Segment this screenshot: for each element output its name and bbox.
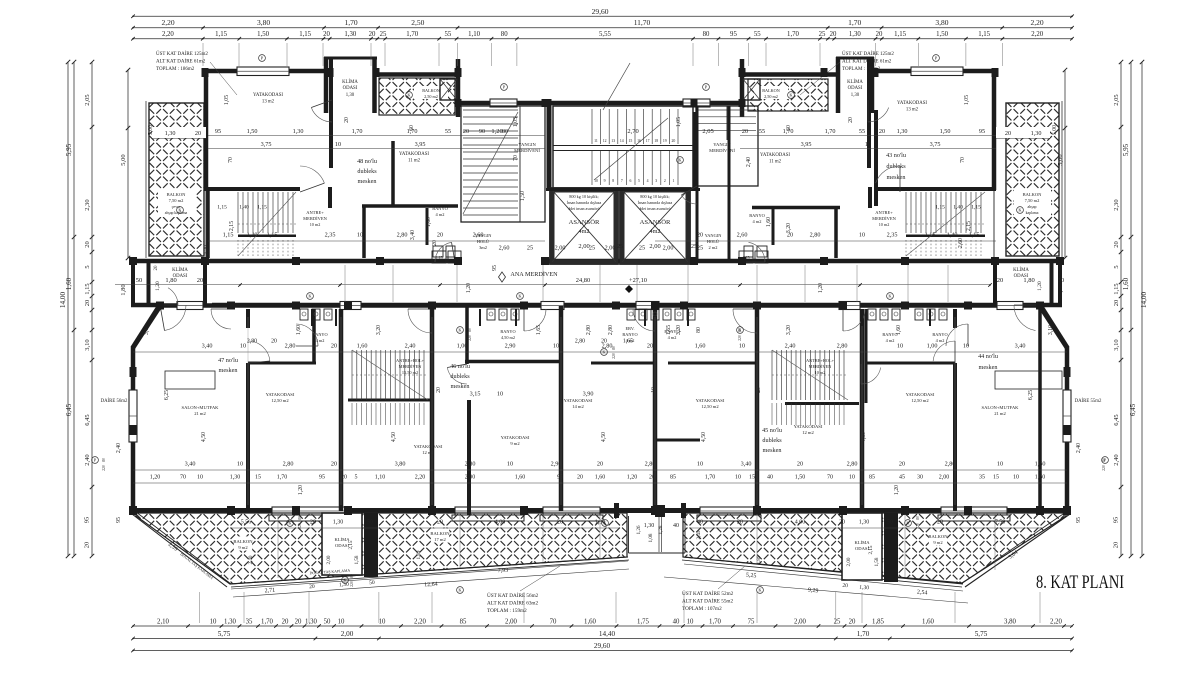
svg-text:BANYO: BANYO xyxy=(312,332,327,337)
svg-text:BALKON: BALKON xyxy=(422,88,439,93)
svg-text:1,28: 1,28 xyxy=(658,525,664,534)
svg-text:1,15: 1,15 xyxy=(299,31,311,38)
svg-text:ALT KAT DAİRE 61m2: ALT KAT DAİRE 61m2 xyxy=(842,59,892,65)
svg-text:20: 20 xyxy=(649,475,655,481)
svg-text:55: 55 xyxy=(859,128,865,135)
svg-text:1,00: 1,00 xyxy=(457,343,468,350)
svg-text:1,65: 1,65 xyxy=(666,325,672,335)
svg-text:SALON+MUTFAK: SALON+MUTFAK xyxy=(182,405,220,410)
svg-text:95: 95 xyxy=(492,265,498,271)
svg-text:2,90: 2,90 xyxy=(551,461,562,468)
svg-text:2,90: 2,90 xyxy=(505,343,516,350)
svg-text:2,00: 2,00 xyxy=(794,619,806,626)
svg-text:20: 20 xyxy=(341,475,347,481)
svg-text:1,70: 1,70 xyxy=(277,475,288,481)
svg-text:48 no'lu: 48 no'lu xyxy=(357,158,377,165)
svg-text:10: 10 xyxy=(210,619,217,626)
svg-text:İnsan hanında dışhıza: İnsan hanında dışhıza xyxy=(567,200,602,205)
svg-text:220: 220 xyxy=(102,465,106,471)
svg-text:BANYO: BANYO xyxy=(749,213,765,218)
svg-text:2,80: 2,80 xyxy=(285,343,296,350)
svg-text:10: 10 xyxy=(735,475,741,481)
svg-text:2,35: 2,35 xyxy=(887,232,898,239)
svg-text:80: 80 xyxy=(696,327,702,333)
svg-text:2,00: 2,00 xyxy=(341,630,354,638)
svg-text:âdet insan asansörü: âdet insan asansörü xyxy=(639,206,670,211)
svg-text:ANTRE+: ANTRE+ xyxy=(306,210,324,215)
svg-text:35: 35 xyxy=(246,619,253,626)
svg-text:5,00: 5,00 xyxy=(148,125,154,135)
svg-text:7,93: 7,93 xyxy=(498,568,509,575)
svg-text:6,45: 6,45 xyxy=(1129,403,1137,416)
svg-text:4m2: 4m2 xyxy=(649,228,660,235)
svg-text:4: 4 xyxy=(647,179,649,183)
svg-text:45: 45 xyxy=(899,475,905,481)
svg-text:3,80: 3,80 xyxy=(257,18,270,27)
svg-text:1,30: 1,30 xyxy=(849,31,861,38)
svg-text:1,60: 1,60 xyxy=(695,343,706,350)
svg-text:1,40: 1,40 xyxy=(953,205,963,211)
svg-text:20: 20 xyxy=(557,520,563,526)
svg-text:1,50: 1,50 xyxy=(936,31,948,38)
svg-text:2,20: 2,20 xyxy=(415,475,426,481)
svg-text:40: 40 xyxy=(697,520,703,526)
svg-text:1,20: 1,20 xyxy=(298,485,304,495)
svg-text:YANGIN: YANGIN xyxy=(518,142,536,147)
svg-text:7,50: 7,50 xyxy=(995,520,1006,526)
svg-text:2,20: 2,20 xyxy=(162,31,174,38)
svg-text:5: 5 xyxy=(1113,265,1120,268)
svg-text:10: 10 xyxy=(594,179,598,183)
svg-text:1,60: 1,60 xyxy=(922,619,934,626)
svg-text:1,08: 1,08 xyxy=(648,533,654,542)
svg-text:1,30: 1,30 xyxy=(333,520,344,526)
svg-text:3,40: 3,40 xyxy=(185,461,196,468)
svg-text:1,50: 1,50 xyxy=(247,128,258,135)
svg-text:2,15: 2,15 xyxy=(348,540,354,549)
svg-text:1,00: 1,00 xyxy=(927,343,938,350)
svg-text:1,65: 1,65 xyxy=(536,325,542,335)
svg-text:10: 10 xyxy=(335,141,341,148)
svg-text:1,15: 1,15 xyxy=(894,31,906,38)
svg-text:40: 40 xyxy=(767,475,773,481)
svg-text:1,70: 1,70 xyxy=(709,619,721,626)
svg-text:2,80: 2,80 xyxy=(586,325,592,335)
svg-text:1,20: 1,20 xyxy=(150,475,161,481)
svg-text:MERDİVENİ: MERDİVENİ xyxy=(709,148,735,153)
svg-text:20: 20 xyxy=(848,117,854,123)
svg-text:220: 220 xyxy=(738,335,742,341)
svg-text:14,00: 14,00 xyxy=(59,292,67,309)
svg-text:220: 220 xyxy=(468,335,472,341)
svg-text:95: 95 xyxy=(730,31,737,38)
svg-text:5,55: 5,55 xyxy=(599,31,611,38)
svg-text:20: 20 xyxy=(997,277,1004,284)
svg-text:11: 11 xyxy=(594,139,598,143)
svg-text:10: 10 xyxy=(237,461,243,468)
svg-text:6,25: 6,25 xyxy=(164,390,170,400)
svg-text:1,60: 1,60 xyxy=(896,325,902,335)
svg-text:4,50: 4,50 xyxy=(391,432,397,442)
svg-text:1,15: 1,15 xyxy=(223,232,234,239)
svg-text:20: 20 xyxy=(282,619,289,626)
svg-text:2,40: 2,40 xyxy=(116,443,122,453)
svg-text:20: 20 xyxy=(309,584,315,590)
svg-text:2,40: 2,40 xyxy=(405,343,416,350)
svg-text:10: 10 xyxy=(697,461,703,468)
svg-text:1,70: 1,70 xyxy=(787,31,799,38)
svg-text:1,60: 1,60 xyxy=(65,277,73,290)
svg-text:BANYO: BANYO xyxy=(622,332,637,337)
svg-text:ÜST KAT DAİRE 52m2: ÜST KAT DAİRE 52m2 xyxy=(682,590,734,597)
svg-text:mesken: mesken xyxy=(887,174,906,181)
svg-text:2,00: 2,00 xyxy=(939,475,950,481)
svg-text:12 m2: 12 m2 xyxy=(422,450,434,455)
svg-text:20: 20 xyxy=(436,387,442,393)
svg-text:70: 70 xyxy=(550,619,557,626)
svg-text:ANTRE+HOL+: ANTRE+HOL+ xyxy=(806,358,835,363)
svg-text:80: 80 xyxy=(1102,458,1106,462)
svg-text:3,10: 3,10 xyxy=(1048,325,1054,335)
svg-text:9 m2: 9 m2 xyxy=(510,441,520,446)
svg-text:20: 20 xyxy=(195,130,201,137)
svg-text:85: 85 xyxy=(670,475,676,481)
svg-text:2,00: 2,00 xyxy=(465,475,476,481)
svg-text:2,80: 2,80 xyxy=(608,325,614,335)
svg-text:3,80: 3,80 xyxy=(935,18,948,27)
svg-text:1,30: 1,30 xyxy=(165,130,176,137)
svg-text:13 m2: 13 m2 xyxy=(906,108,919,113)
svg-text:12 m2: 12 m2 xyxy=(802,430,814,435)
svg-text:20: 20 xyxy=(331,461,337,468)
svg-text:55: 55 xyxy=(445,128,451,135)
svg-text:1,58: 1,58 xyxy=(874,557,880,566)
svg-text:80: 80 xyxy=(501,31,508,38)
svg-text:5,75: 5,75 xyxy=(975,630,988,638)
svg-text:YATAKODASI: YATAKODASI xyxy=(414,444,443,449)
svg-text:mesken: mesken xyxy=(358,178,377,185)
svg-text:4,50: 4,50 xyxy=(201,432,207,442)
svg-text:20: 20 xyxy=(331,343,337,350)
svg-text:5: 5 xyxy=(355,475,358,481)
svg-text:3,20: 3,20 xyxy=(786,223,792,233)
svg-text:ALT KAT DAİRE 63m2: ALT KAT DAİRE 63m2 xyxy=(487,600,538,607)
svg-text:9 m2: 9 m2 xyxy=(238,545,248,550)
svg-text:80: 80 xyxy=(738,328,742,332)
svg-text:70: 70 xyxy=(228,157,234,163)
svg-text:1,30: 1,30 xyxy=(293,128,304,135)
svg-text:40: 40 xyxy=(673,523,679,529)
svg-text:10: 10 xyxy=(859,232,865,239)
svg-text:60: 60 xyxy=(409,125,415,131)
svg-text:20: 20 xyxy=(1113,241,1120,248)
svg-text:95: 95 xyxy=(215,128,221,135)
svg-text:DAİRE 56m2: DAİRE 56m2 xyxy=(101,398,128,404)
svg-text:2,00: 2,00 xyxy=(846,557,852,566)
svg-text:2,05: 2,05 xyxy=(1113,94,1120,105)
svg-text:8: 8 xyxy=(612,179,614,183)
svg-text:KLİMA: KLİMA xyxy=(854,540,870,545)
svg-text:ANTRE+: ANTRE+ xyxy=(875,210,893,215)
svg-text:1,20: 1,20 xyxy=(155,281,161,291)
svg-text:5,56: 5,56 xyxy=(241,520,252,526)
svg-text:10 m2: 10 m2 xyxy=(815,370,826,375)
svg-text:2,05: 2,05 xyxy=(84,94,91,105)
svg-text:2,60: 2,60 xyxy=(499,245,510,252)
svg-text:10: 10 xyxy=(651,387,657,393)
svg-text:10: 10 xyxy=(865,141,871,148)
svg-text:1,30: 1,30 xyxy=(224,619,236,626)
svg-text:YATAKODASI: YATAKODASI xyxy=(501,435,530,440)
svg-text:20: 20 xyxy=(323,31,330,38)
svg-text:1,70: 1,70 xyxy=(352,128,363,135)
svg-text:25: 25 xyxy=(639,245,645,252)
svg-text:90: 90 xyxy=(479,128,485,135)
svg-text:1,15: 1,15 xyxy=(935,205,945,211)
svg-text:95: 95 xyxy=(84,517,91,524)
svg-text:BALKON: BALKON xyxy=(1023,192,1042,197)
svg-text:4 m2: 4 m2 xyxy=(316,338,325,343)
svg-text:1,10: 1,10 xyxy=(468,31,480,38)
svg-text:95: 95 xyxy=(979,128,985,135)
svg-text:YATAKODASI: YATAKODASI xyxy=(253,93,283,98)
svg-text:2,40: 2,40 xyxy=(1076,443,1082,453)
svg-text:1,10: 1,10 xyxy=(375,475,386,481)
svg-text:1,80: 1,80 xyxy=(120,284,127,295)
svg-text:20: 20 xyxy=(84,542,91,549)
svg-text:2,00: 2,00 xyxy=(649,243,660,250)
svg-text:YATAKODASI: YATAKODASI xyxy=(906,392,935,397)
svg-text:5: 5 xyxy=(84,265,91,268)
svg-text:dubleks: dubleks xyxy=(762,437,782,444)
svg-text:1,70: 1,70 xyxy=(825,128,836,135)
svg-text:1,05: 1,05 xyxy=(513,117,519,127)
svg-text:20: 20 xyxy=(876,31,883,38)
svg-text:mesken: mesken xyxy=(219,367,238,374)
svg-text:1,70: 1,70 xyxy=(848,18,861,27)
svg-text:1,05: 1,05 xyxy=(224,95,230,105)
svg-text:1,60: 1,60 xyxy=(1035,475,1046,481)
svg-text:KLİMA: KLİMA xyxy=(1013,267,1029,273)
svg-text:16: 16 xyxy=(637,139,641,143)
svg-text:1,60: 1,60 xyxy=(296,325,302,335)
svg-text:2,40: 2,40 xyxy=(248,555,254,564)
svg-text:10: 10 xyxy=(379,619,386,626)
svg-text:5,25: 5,25 xyxy=(746,573,757,580)
svg-text:2,15: 2,15 xyxy=(229,221,235,231)
svg-text:4 m2: 4 m2 xyxy=(436,212,445,217)
svg-text:1,15: 1,15 xyxy=(925,232,936,239)
svg-text:8. KAT PLANI: 8. KAT PLANI xyxy=(1036,572,1124,593)
svg-text:2,70: 2,70 xyxy=(627,128,638,135)
svg-text:ÜST KAT DAİRE 125m2: ÜST KAT DAİRE 125m2 xyxy=(156,51,208,57)
svg-text:1,30: 1,30 xyxy=(897,128,908,135)
svg-text:12: 12 xyxy=(603,139,607,143)
svg-text:20: 20 xyxy=(839,520,845,526)
svg-text:BALKON: BALKON xyxy=(430,531,450,536)
svg-text:2,05: 2,05 xyxy=(702,128,713,135)
svg-text:1,60: 1,60 xyxy=(426,217,432,227)
svg-text:1,15: 1,15 xyxy=(969,232,980,239)
svg-text:3,20: 3,20 xyxy=(676,325,682,335)
svg-text:1,60: 1,60 xyxy=(584,619,596,626)
svg-text:20: 20 xyxy=(597,461,603,468)
svg-text:ÜST KAT DAİRE 56m2: ÜST KAT DAİRE 56m2 xyxy=(487,592,539,599)
svg-text:1,15: 1,15 xyxy=(217,205,227,211)
svg-text:1,50: 1,50 xyxy=(257,31,269,38)
svg-text:220: 220 xyxy=(298,523,302,529)
svg-text:1,85: 1,85 xyxy=(872,619,884,626)
svg-text:45 no'lu: 45 no'lu xyxy=(762,427,782,434)
svg-text:MERDİVEN: MERDİVEN xyxy=(872,216,896,221)
svg-text:3,10: 3,10 xyxy=(1113,339,1120,350)
svg-text:20: 20 xyxy=(577,475,583,481)
svg-text:1,70: 1,70 xyxy=(261,619,273,626)
svg-text:10: 10 xyxy=(197,475,203,481)
svg-text:ODASI: ODASI xyxy=(343,86,358,91)
svg-text:20: 20 xyxy=(84,241,91,248)
svg-text:2,60: 2,60 xyxy=(958,238,964,248)
svg-text:3,20: 3,20 xyxy=(786,325,792,335)
svg-text:ANTRE+HOL+: ANTRE+HOL+ xyxy=(396,358,425,363)
svg-text:2,71: 2,71 xyxy=(264,588,275,595)
svg-text:HOLÜ: HOLÜ xyxy=(707,239,720,244)
svg-text:10: 10 xyxy=(1013,475,1019,481)
svg-text:50: 50 xyxy=(887,520,893,526)
svg-text:80: 80 xyxy=(502,128,508,135)
svg-text:70: 70 xyxy=(513,155,519,161)
svg-text:47 no'lu: 47 no'lu xyxy=(218,357,238,364)
svg-text:5: 5 xyxy=(638,179,640,183)
svg-text:10: 10 xyxy=(553,343,559,350)
svg-text:ANA MERDİVEN: ANA MERDİVEN xyxy=(510,271,558,278)
svg-text:20: 20 xyxy=(697,232,703,239)
svg-text:KLİMA: KLİMA xyxy=(172,267,188,273)
svg-text:20: 20 xyxy=(937,520,943,526)
svg-text:25: 25 xyxy=(834,619,841,626)
svg-text:20: 20 xyxy=(369,31,376,38)
svg-text:+27,10: +27,10 xyxy=(629,277,647,284)
svg-text:10: 10 xyxy=(963,343,969,350)
svg-text:3,40: 3,40 xyxy=(741,461,752,468)
svg-text:3,15: 3,15 xyxy=(470,391,481,398)
svg-text:ALT KAT DAİRE 61m2: ALT KAT DAİRE 61m2 xyxy=(156,59,206,65)
svg-text:1,75: 1,75 xyxy=(637,619,649,626)
svg-text:1: 1 xyxy=(672,179,674,183)
svg-text:1,05: 1,05 xyxy=(676,117,682,127)
svg-text:1,20: 1,20 xyxy=(1037,281,1043,291)
svg-text:20: 20 xyxy=(849,619,856,626)
svg-text:YATAKODASI: YATAKODASI xyxy=(564,398,593,403)
svg-text:80: 80 xyxy=(468,328,472,332)
svg-text:14,40: 14,40 xyxy=(599,630,616,638)
svg-text:10: 10 xyxy=(687,619,694,626)
svg-text:55: 55 xyxy=(759,128,765,135)
svg-text:25: 25 xyxy=(697,245,703,252)
svg-text:DAİRE 55m2: DAİRE 55m2 xyxy=(1075,398,1102,404)
svg-text:15: 15 xyxy=(749,475,755,481)
svg-text:2,54: 2,54 xyxy=(917,590,928,597)
svg-text:14: 14 xyxy=(620,139,624,143)
svg-text:10: 10 xyxy=(507,461,513,468)
svg-text:2,80: 2,80 xyxy=(465,461,476,468)
svg-text:1,30: 1,30 xyxy=(346,93,355,98)
svg-text:1,58: 1,58 xyxy=(354,555,360,564)
svg-text:50: 50 xyxy=(1058,277,1065,284)
svg-text:20: 20 xyxy=(197,277,204,284)
svg-text:9: 9 xyxy=(604,179,606,183)
svg-text:20: 20 xyxy=(672,139,676,143)
svg-text:1,15: 1,15 xyxy=(978,31,990,38)
svg-text:1,70: 1,70 xyxy=(344,18,357,27)
svg-text:BALKON: BALKON xyxy=(233,539,253,544)
svg-text:20: 20 xyxy=(797,461,803,468)
svg-text:MERDİVEN: MERDİVEN xyxy=(809,364,832,369)
svg-text:85: 85 xyxy=(869,475,875,481)
svg-text:1,20: 1,20 xyxy=(894,485,900,495)
svg-text:11 m2: 11 m2 xyxy=(769,160,782,165)
svg-text:BALKON: BALKON xyxy=(762,88,779,93)
svg-text:2,80: 2,80 xyxy=(283,461,294,468)
svg-text:10 m2: 10 m2 xyxy=(310,222,321,227)
svg-text:2,80: 2,80 xyxy=(837,343,848,350)
svg-text:ahşap: ahşap xyxy=(1027,204,1036,209)
svg-text:2,40: 2,40 xyxy=(746,157,752,167)
svg-text:55: 55 xyxy=(754,31,761,38)
svg-text:20: 20 xyxy=(463,128,469,135)
svg-text:10: 10 xyxy=(497,391,503,398)
svg-text:10: 10 xyxy=(357,232,363,239)
svg-text:1,26: 1,26 xyxy=(636,525,642,534)
svg-text:11,70: 11,70 xyxy=(634,18,651,27)
svg-text:İnsan hanında dışhıza: İnsan hanında dışhıza xyxy=(638,200,673,205)
svg-text:dubleks: dubleks xyxy=(357,168,377,175)
svg-text:25: 25 xyxy=(819,31,826,38)
svg-text:1,20: 1,20 xyxy=(627,475,638,481)
svg-text:2,15: 2,15 xyxy=(966,221,972,231)
svg-text:2,00: 2,00 xyxy=(505,619,517,626)
svg-text:1,89: 1,89 xyxy=(416,550,422,559)
svg-text:4,50: 4,50 xyxy=(601,432,607,442)
svg-text:20: 20 xyxy=(1113,300,1120,307)
svg-text:3,75: 3,75 xyxy=(930,141,941,148)
svg-text:1,30: 1,30 xyxy=(851,93,860,98)
svg-text:2,15: 2,15 xyxy=(868,545,874,554)
svg-text:2,40: 2,40 xyxy=(84,454,91,465)
svg-text:20: 20 xyxy=(601,339,607,345)
svg-text:5,95: 5,95 xyxy=(65,143,73,156)
svg-text:2,80: 2,80 xyxy=(945,461,956,468)
svg-text:220: 220 xyxy=(612,353,616,359)
svg-text:20: 20 xyxy=(842,583,848,589)
svg-text:70: 70 xyxy=(180,475,186,481)
svg-text:95: 95 xyxy=(1113,517,1120,524)
svg-text:BANYO: BANYO xyxy=(432,206,448,211)
svg-text:kaplama: kaplama xyxy=(1026,211,1039,215)
svg-text:20: 20 xyxy=(437,232,443,239)
svg-text:4,00: 4,00 xyxy=(795,520,806,526)
svg-text:2,30: 2,30 xyxy=(204,245,210,255)
svg-text:2,00: 2,00 xyxy=(663,245,674,252)
svg-text:75: 75 xyxy=(748,619,755,626)
svg-text:6: 6 xyxy=(629,179,631,183)
svg-text:80: 80 xyxy=(612,346,616,350)
svg-text:20: 20 xyxy=(271,339,277,345)
svg-text:20: 20 xyxy=(437,520,443,526)
svg-text:80: 80 xyxy=(350,574,354,578)
svg-text:19: 19 xyxy=(663,139,667,143)
svg-text:10: 10 xyxy=(849,475,855,481)
